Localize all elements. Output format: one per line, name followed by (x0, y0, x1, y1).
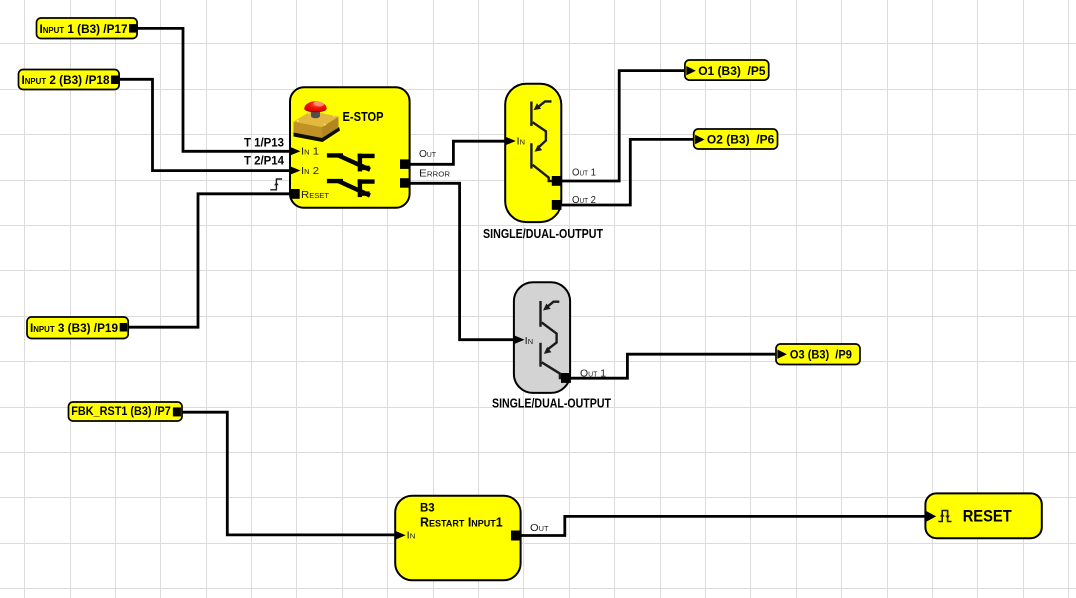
output tag O2 (B3)/P6 (694, 129, 778, 149)
OUTPUT1 pin label IN (517, 135, 526, 147)
svg-text:In: In (517, 135, 526, 147)
E-STOP pin label ERROR (419, 167, 450, 179)
label B3 (420, 502, 435, 514)
function block RESTART INPUT1 (395, 496, 520, 581)
label SINGLE/DUAL-OUTPUT 1 (483, 227, 603, 241)
input tag FBK_RST1 (B3)/P7 (69, 402, 183, 421)
RESTART pin label IN (407, 530, 416, 542)
wire RESTART OUT to RESET (521, 516, 927, 535)
OUTPUT1 pin OUT1 square (552, 176, 562, 186)
output tag O3 (B3)/P9 (776, 344, 860, 365)
e-stop button icon (294, 101, 341, 142)
svg-text:In 2: In 2 (301, 165, 319, 177)
svg-text:B3: B3 (420, 502, 435, 514)
svg-text:Restart Input1: Restart Input1 (420, 515, 503, 529)
E-STOP pin IN2 arrow (290, 166, 301, 175)
wire OUTPUT1 OUT2 to O2 (561, 139, 694, 205)
svg-text:Input 3 (B3) /P19: Input 3 (B3) /P19 (30, 321, 118, 335)
svg-text:Input 2 (B3) /P18: Input 2 (B3) /P18 (22, 73, 110, 87)
svg-text:Input 1 (B3) /P17: Input 1 (B3) /P17 (40, 22, 128, 36)
wire INPUT1 to E-STOP IN1 (137, 28, 290, 151)
svg-text:E-STOP: E-STOP (343, 110, 384, 124)
label RESET (963, 507, 1013, 526)
RESTART pin label OUT (530, 522, 549, 534)
OUTPUT1 pin label OUT 2 (572, 194, 596, 206)
svg-text:Reset: Reset (301, 189, 330, 201)
svg-text:SINGLE/DUAL-OUTPUT: SINGLE/DUAL-OUTPUT (483, 227, 603, 241)
e-stop NC contact 2 (327, 179, 375, 197)
input tag INPUT 1 (B3)/P17 (37, 18, 138, 39)
svg-text:O3 (B3) /P9: O3 (B3) /P9 (790, 347, 852, 361)
OUTPUT1 pin OUT2 square (552, 200, 562, 210)
svg-text:SINGLE/DUAL-OUTPUT: SINGLE/DUAL-OUTPUT (492, 396, 611, 410)
OUTPUT2 pin label IN (525, 335, 534, 347)
svg-text:FBK_RST1 (B3) /P7: FBK_RST1 (B3) /P7 (71, 404, 171, 418)
RESTART pin OUT square (511, 531, 521, 541)
svg-text:O2 (B3) /P6: O2 (B3) /P6 (707, 133, 775, 147)
wire label T 2/P14 (244, 155, 285, 167)
svg-text:Error: Error (419, 167, 450, 179)
E-STOP pin IN1 arrow (290, 147, 301, 156)
rising edge symbol at RESET input (270, 179, 282, 190)
E-STOP pin label RESET (301, 189, 330, 201)
E-STOP pin OUT square (400, 159, 410, 169)
wire E-STOP ERROR to OUTPUT2 IN (410, 183, 515, 339)
svg-text:In: In (525, 335, 534, 347)
wire OUTPUT1 OUT1 to O1 (561, 71, 686, 181)
svg-text:O1 (B3) /P5: O1 (B3) /P5 (698, 64, 766, 78)
wire OUTPUT2 OUT1 to O3 (571, 354, 777, 378)
input tag INPUT 3 (B3)/P19 (27, 317, 128, 339)
function block SINGLE/DUAL-OUTPUT 2 (gray) (514, 282, 570, 393)
E-STOP pin label OUT (419, 148, 437, 160)
wire label T 1/P13 (244, 138, 284, 150)
svg-text:Out: Out (419, 148, 437, 160)
OUTPUT1 pin IN arrow (505, 137, 516, 146)
E-STOP pin RESET square (290, 189, 300, 199)
RESET pin arrow (926, 511, 936, 522)
OUTPUT1 pin label OUT 1 (572, 167, 596, 179)
svg-text:In: In (407, 530, 416, 542)
RESTART pin IN arrow (395, 531, 406, 540)
label RESTART INPUT1 (420, 515, 503, 529)
svg-text:Out: Out (530, 522, 549, 534)
svg-text:Out 1: Out 1 (580, 368, 606, 380)
svg-text:T 1/P13: T 1/P13 (244, 138, 284, 150)
label SINGLE/DUAL-OUTPUT 2 (492, 396, 611, 410)
function block RESET (925, 493, 1041, 538)
function block E-STOP (290, 87, 410, 208)
wire E-STOP OUT to OUTPUT1 IN (410, 141, 506, 164)
E-STOP pin ERROR square (400, 178, 410, 188)
svg-text:T 2/P14: T 2/P14 (244, 155, 285, 167)
OUTPUT2 pin label OUT 1 (580, 368, 606, 380)
output block 2 transistor icon (541, 301, 563, 378)
svg-text:RESET: RESET (963, 507, 1013, 526)
pulse icon (938, 511, 951, 522)
OUTPUT2 pin OUT1 square (561, 373, 571, 383)
E-STOP pin label IN 2 (301, 165, 319, 177)
svg-text:In 1: In 1 (301, 146, 319, 158)
svg-text:Out 2: Out 2 (572, 194, 596, 206)
output block 1 transistor icon (531, 101, 553, 181)
label E-STOP (343, 110, 384, 124)
function block SINGLE/DUAL-OUTPUT 1 (yellow) (505, 84, 561, 222)
input tag INPUT 2 (B3)/P18 (19, 70, 120, 90)
svg-text:Out 1: Out 1 (572, 167, 596, 179)
wire INPUT2 to E-STOP IN2 (119, 79, 290, 170)
e-stop NC contact 1 (327, 154, 375, 172)
wire INPUT3 to E-STOP RESET (128, 194, 290, 327)
wire FBK_RST1 to RESTART IN (182, 412, 396, 535)
OUTPUT2 pin IN arrow (514, 335, 525, 344)
output tag O1 (B3)/P5 (685, 60, 769, 80)
E-STOP pin label IN 1 (301, 146, 319, 158)
